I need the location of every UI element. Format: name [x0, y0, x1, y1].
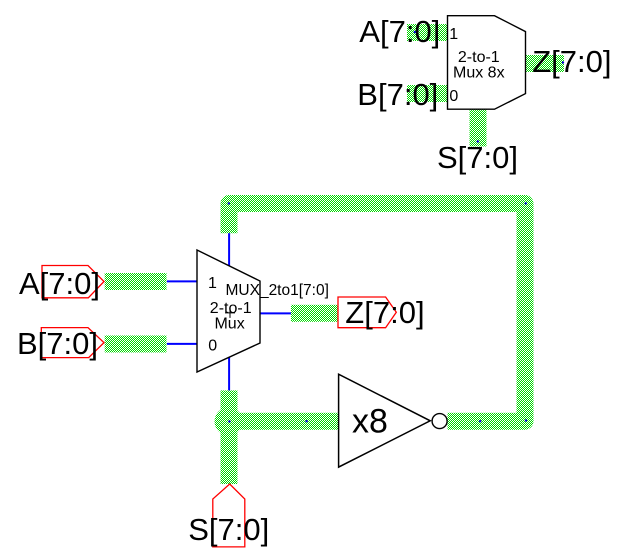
svg-text:MUX_2to1[7:0]: MUX_2to1[7:0] — [226, 282, 329, 299]
node dot inverter output — [479, 420, 481, 422]
input terminal A[7:0] — [42, 266, 104, 298]
node dot horizontal S bus — [305, 420, 307, 422]
node B bus endpoint dot — [414, 91, 416, 93]
wire bus Z[7:0] from top symbol output — [526, 55, 565, 72]
bus inverted S: inverter output right, up, across top, down to select — [229, 204, 525, 422]
mux MUX_2to1 body — [197, 250, 260, 372]
inverter bubble — [432, 414, 447, 429]
svg-text:1: 1 — [208, 275, 217, 292]
svg-text:2-to-1: 2-to-1 — [210, 300, 252, 317]
svg-text:Mux: Mux — [214, 316, 244, 333]
node dot top bus right — [525, 202, 527, 204]
bus Z[7:0] to output terminal — [291, 305, 338, 322]
wire bus S[7:0] to top symbol select — [470, 109, 487, 147]
mux origin cross — [225, 308, 235, 318]
svg-text:A[7:0]: A[7:0] — [19, 266, 100, 301]
input terminal B[7:0] — [41, 328, 104, 358]
wire A input to mux — [167, 280, 198, 282]
node S bus endpoint dot — [477, 140, 479, 142]
bus S net: junction blob — [215, 407, 243, 435]
svg-text:B[7:0]: B[7:0] — [17, 326, 98, 361]
svg-text:x8: x8 — [352, 403, 388, 441]
wire select bottom (S into mux) — [228, 357, 230, 390]
bus S net: junction to inverter input — [229, 413, 339, 430]
wire bus A[7:0] to top symbol pin 1 — [407, 24, 448, 41]
node dot top bus left — [228, 202, 230, 204]
wire B input to mux — [167, 343, 198, 345]
output terminal Z[7:0] — [338, 297, 396, 328]
svg-text:Z[7:0]: Z[7:0] — [532, 44, 611, 79]
inverter x8 body — [339, 374, 431, 467]
svg-text:Z[7:0]: Z[7:0] — [345, 295, 424, 330]
input terminal S[7:0] — [213, 484, 245, 547]
wire select top (inverted S into mux) — [228, 233, 230, 266]
wire bus B[7:0] to top symbol pin 0 — [407, 85, 448, 102]
svg-text:A[7:0]: A[7:0] — [359, 14, 440, 49]
bus A[7:0] from input terminal — [105, 273, 167, 290]
svg-text:0: 0 — [208, 338, 217, 355]
svg-text:S[7:0]: S[7:0] — [437, 140, 518, 175]
wire mux output — [260, 312, 291, 314]
svg-text:0: 0 — [449, 88, 458, 105]
svg-text:Mux 8x: Mux 8x — [453, 65, 505, 82]
svg-text:1: 1 — [449, 26, 458, 43]
svg-text:S[7:0]: S[7:0] — [188, 512, 269, 547]
svg-text:B[7:0]: B[7:0] — [357, 77, 438, 112]
bus B[7:0] from input terminal — [105, 336, 167, 353]
node dot right bus bottom — [525, 419, 527, 421]
node Z bus endpoint dot — [562, 61, 564, 63]
node dot junction center — [228, 420, 230, 422]
node A bus endpoint dot — [414, 31, 416, 33]
svg-text:2-to-1: 2-to-1 — [458, 49, 500, 66]
mux symbol 2-to-1 Mux 8x — [448, 16, 526, 110]
bus S net: tag up through junction to select — [221, 390, 238, 484]
